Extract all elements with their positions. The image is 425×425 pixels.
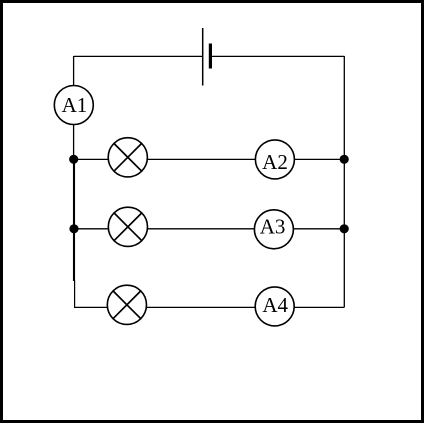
svg-text:A2: A2 bbox=[262, 150, 288, 174]
svg-text:A4: A4 bbox=[262, 293, 288, 317]
svg-text:A1: A1 bbox=[62, 93, 88, 117]
svg-text:A3: A3 bbox=[260, 215, 286, 239]
